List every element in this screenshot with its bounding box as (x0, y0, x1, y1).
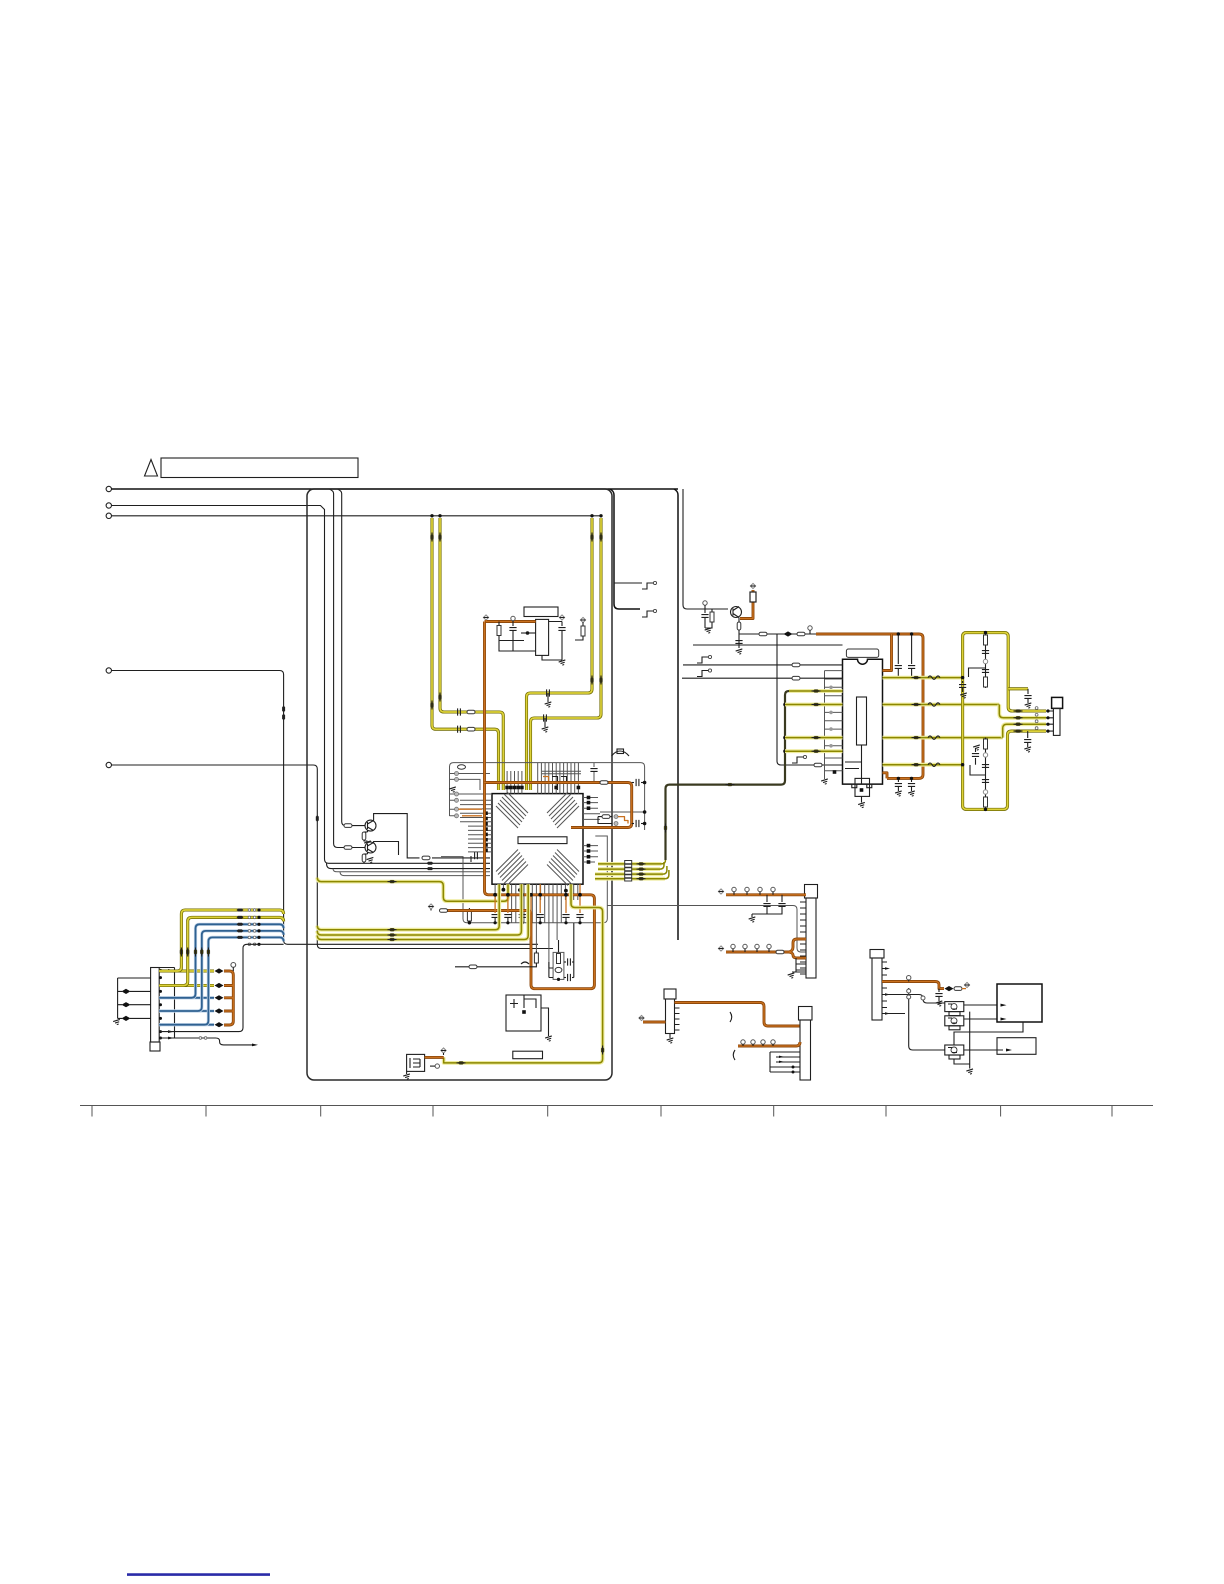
terminal P10 (231, 963, 236, 968)
capacitor C32 (911, 778, 913, 782)
ground small (449, 787, 457, 793)
diodes to comb (215, 968, 224, 973)
terminal P13 (639, 1015, 644, 1020)
arc mark (521, 962, 529, 964)
bus line 876 (340, 872, 490, 876)
jumper JP1 (612, 751, 630, 756)
wire E blue2 (159, 1009, 214, 1012)
gray return wire (159, 944, 283, 1031)
yellow stub U2b (785, 736, 843, 740)
regulator IC4 box (506, 995, 541, 1031)
driver T3 (945, 1045, 964, 1055)
wire E blue3 (159, 1023, 214, 1026)
stub arrows (812, 690, 821, 693)
emitter wire (738, 618, 740, 623)
capacitor C62 (781, 895, 783, 902)
diode D2 (439, 533, 442, 542)
terminals on rail2 (731, 944, 771, 952)
orange jog (618, 817, 628, 824)
yellow stub U2a (785, 703, 843, 707)
wire into pin1 (693, 644, 843, 646)
terminal P1 (483, 615, 488, 620)
olive wire from net5 (317, 878, 508, 902)
wires to box E1 (964, 1005, 997, 1019)
inner row (159, 968, 174, 1039)
yellow top stub (1008, 687, 1028, 690)
resistor R23 (344, 846, 352, 850)
wire to box E2 (964, 1049, 1003, 1051)
diode D6 (600, 533, 603, 542)
capacitor C12 (467, 727, 475, 731)
capacitor C61 (766, 895, 768, 902)
black tap top (969, 668, 986, 677)
diode arrows F (1014, 710, 1023, 713)
terminal P2 (511, 616, 515, 620)
bundle yellow a (317, 884, 499, 930)
shield frame U1 bottom (450, 836, 608, 923)
wire drop A (330, 489, 366, 848)
capacitor C22 (558, 628, 565, 631)
yellow bundle U1 right line1 (598, 862, 662, 866)
orange stub FET (425, 1056, 444, 1059)
orange stub C (643, 1021, 666, 1024)
ground G12 (403, 1074, 411, 1080)
wire box2 right (674, 489, 678, 940)
inductor L4 (792, 676, 800, 680)
connector CN-E body (151, 968, 160, 1043)
riser yellow2 (159, 917, 283, 985)
gray bottom wire (159, 1038, 252, 1045)
diode arrows (912, 676, 921, 679)
terminal P12 (718, 946, 723, 951)
inductor L5 (928, 676, 940, 679)
paren mark2 (733, 1050, 735, 1060)
yellow stub U2c (785, 749, 843, 753)
scale ruler (80, 1106, 1153, 1117)
wire U2 out1 yellow (883, 676, 963, 680)
capacitor C55 (564, 961, 566, 963)
circles stack (907, 989, 911, 993)
black hook top (552, 777, 567, 791)
shield frame U1 top (450, 763, 645, 830)
capacitor C24 (735, 641, 742, 644)
note box (161, 458, 358, 478)
pin stub dots (1046, 711, 1053, 731)
ground G9 (858, 802, 866, 808)
wire U2 out2 yellow (883, 703, 1000, 707)
sub wiring (499, 622, 562, 661)
bundle yellow b (317, 884, 521, 935)
terminals on railB (741, 1040, 775, 1046)
inductor L6 (928, 703, 940, 706)
diode D5 (591, 533, 594, 542)
right pad col (587, 796, 591, 800)
orange feed B (675, 1003, 801, 1027)
comb below B (770, 1052, 800, 1072)
main shield box (307, 489, 612, 1080)
top pad row (505, 786, 509, 790)
resistor R26 (535, 951, 537, 953)
arrow vertical riser (664, 824, 667, 833)
wire E yellow1 (159, 969, 214, 972)
resistor R11 (498, 622, 500, 626)
wire U2 in2 (682, 677, 843, 679)
wire U2 in1 (683, 664, 843, 666)
inductor L1 (759, 632, 767, 636)
regulator IC3 body (536, 619, 549, 655)
transistor Q3 (731, 607, 742, 618)
ground G6 (705, 628, 713, 634)
yellow stub U2 top (789, 689, 843, 693)
black tap bottom (970, 765, 986, 775)
cap near lineD (975, 758, 977, 765)
footer underline (127, 1573, 270, 1576)
capacitor C41 (1027, 689, 1029, 694)
decoupling caps row (492, 915, 584, 925)
wire edge y812 (600, 811, 645, 813)
capacitor C17 (544, 714, 547, 721)
terminal P8 (435, 1064, 439, 1068)
arrow olive (601, 1046, 604, 1055)
EMI filter loop yellow top (963, 633, 1046, 711)
connector CN-E shell (150, 1042, 160, 1051)
arrows inner (168, 969, 174, 1039)
wire U2 out4 yellow (883, 763, 963, 767)
capacitor C11 (458, 726, 461, 733)
wire drop B (338, 489, 366, 826)
connector CN-A body (806, 898, 816, 978)
ground G8 (821, 779, 829, 785)
riser yellow1 (159, 910, 283, 971)
inductor L11 (776, 950, 784, 954)
diode arrow horiz (726, 783, 735, 786)
terminal T4 (106, 668, 111, 673)
CN-C pins (675, 1003, 680, 1031)
orange elbow U2 top right (883, 634, 892, 671)
inductor L2 (814, 763, 822, 767)
wire Q2 collector net (374, 842, 399, 856)
wire Y1 yellow (432, 518, 499, 790)
bundle beads (388, 928, 397, 931)
terminal P6 (808, 626, 812, 630)
ground G16 (788, 973, 796, 979)
pin ladder circles (458, 765, 466, 769)
orange hook top (543, 777, 549, 783)
collector wire orange (740, 590, 753, 619)
wire exit right (607, 906, 806, 953)
IC U2 core (857, 697, 867, 745)
cap near lineA (962, 681, 964, 683)
arrow pair on net4 (282, 706, 285, 713)
bead b1 (427, 862, 434, 865)
yellow bundle U1 right line4 (595, 877, 665, 881)
top pins (507, 763, 578, 794)
orange stub pinL1 (459, 808, 483, 810)
terminal T2 (106, 503, 111, 508)
oo pair low (199, 1037, 207, 1040)
capacitor C21 (512, 621, 514, 627)
terminal T5 (106, 762, 111, 767)
wire Y2 yellow (440, 518, 503, 790)
terminal T1 (106, 486, 111, 491)
ground G14 (113, 1019, 121, 1025)
junction dot (526, 631, 530, 635)
capacitor C14 (467, 710, 475, 714)
CN-A pins (800, 902, 806, 974)
corner fan BR (547, 850, 579, 886)
wire link2-3 (999, 705, 1046, 738)
wire net4 (112, 671, 539, 945)
FET Q4 box (407, 1054, 425, 1071)
connector CN-B body (800, 1020, 811, 1080)
pin ladder left (825, 671, 843, 779)
capacitor C34 (911, 634, 913, 664)
diodes D10 (945, 986, 954, 991)
warning triangle (145, 460, 158, 477)
wire D sig1 (882, 995, 945, 1004)
left pad col (484, 811, 488, 815)
bus line 872 (333, 869, 490, 872)
step glyph3 (697, 669, 712, 677)
wire net3 (112, 515, 602, 517)
olive wire U1 to FET (444, 884, 603, 1063)
wire VCC in (486, 620, 536, 622)
capacitor C51 (593, 763, 595, 767)
step glyph2 (697, 655, 712, 663)
riser blue3 (159, 937, 283, 1024)
orange sub verticals (495, 884, 580, 913)
bundle yellow c (317, 884, 528, 939)
inductor L1b (797, 632, 805, 636)
wire riser dark (666, 691, 843, 860)
terminal P4 (703, 601, 707, 605)
inline oo pairs (248, 909, 256, 912)
diode D8 (600, 676, 603, 685)
link T1-T3 (954, 1012, 1023, 1069)
diode arrows bundle (637, 863, 646, 866)
orange elbow U2 bottom (883, 773, 888, 779)
inductor L7 (928, 736, 940, 739)
wire U2 out3 yellow (883, 736, 1003, 740)
orange rail A2 (726, 939, 806, 958)
resistor R21 (344, 824, 352, 828)
fuse F1 (600, 781, 608, 785)
oscillator X1 box (553, 952, 564, 979)
box E2 (997, 1038, 1036, 1055)
transistor Q1 (365, 820, 376, 831)
top bus lines (542, 771, 581, 774)
capacitor C18 ground (544, 718, 546, 727)
step glyph (792, 755, 807, 763)
diode arrow (388, 880, 397, 883)
ground G15 (751, 914, 753, 917)
inductor L9 (422, 856, 430, 860)
terminal P9 (441, 1048, 446, 1053)
capacitor C56 (564, 977, 566, 979)
pins CN-E (159, 969, 162, 1040)
wire net5 (112, 765, 554, 949)
orange rail U1 top (447, 622, 595, 989)
connector CN-D shell (870, 950, 884, 959)
diode D4 (439, 693, 442, 702)
connector CN-C shell (664, 989, 676, 999)
transistor Q2 (365, 842, 376, 853)
resistor R14 (750, 592, 756, 602)
riser arrows (180, 948, 183, 957)
capacitor C63 (938, 989, 940, 992)
orange comb (224, 971, 233, 1025)
IC U2 label box (846, 649, 878, 657)
driver T2 (945, 1016, 964, 1026)
left loop wires (118, 978, 151, 1018)
paren mark1 (730, 1012, 732, 1022)
capacitor C31 (897, 778, 899, 782)
bead arrows h (237, 909, 244, 912)
CN-D pins (882, 962, 887, 1014)
yellow bundle U1 right line2 (598, 867, 660, 871)
capacitor C52 (470, 856, 472, 862)
EMI filter loop yellow bottom (963, 678, 1046, 810)
ground G17 (669, 1034, 671, 1039)
ground G10 (364, 841, 372, 847)
wire E blue1 (159, 996, 214, 999)
wire net1 top (112, 488, 679, 490)
pin gray dots (829, 686, 833, 748)
bottom pins (495, 884, 578, 968)
ground G11 (367, 857, 375, 863)
riser blue2 (159, 931, 283, 1011)
box E1 (997, 984, 1042, 1022)
orange bus y782 (485, 783, 632, 828)
ground G7 (736, 649, 744, 655)
emitter Q1 resistor R22 (367, 831, 369, 833)
wire sense to U2 (777, 634, 842, 765)
switch S2 (642, 609, 657, 617)
junction dots (783, 703, 787, 753)
ground G13 (545, 1036, 553, 1042)
terminals on rail (732, 887, 775, 895)
wire E yellow2 (159, 984, 214, 987)
yellow bundle U1 right line3 (595, 872, 663, 876)
orange rail B2 (738, 1042, 800, 1046)
ground G18 (966, 1069, 974, 1075)
resistor R15 (737, 622, 741, 630)
wire orange bus VCC2 (816, 634, 923, 778)
bottom pad dots (502, 888, 568, 893)
IC U2 body (843, 659, 883, 784)
connector CN-B shell (799, 1007, 813, 1021)
diode arrow olive2 (457, 1062, 466, 1065)
comb below A (792, 958, 806, 972)
orange stub pinL2 (462, 815, 482, 817)
ferrite block FB1 (625, 861, 632, 882)
terminal T3 (106, 513, 111, 518)
left pins (460, 800, 492, 852)
wire Y3 yellow (527, 518, 593, 790)
junction dots orange bus (493, 893, 582, 897)
crystal X2 (855, 778, 870, 796)
resistor R25 (468, 908, 470, 912)
diode D9 (784, 631, 793, 636)
resistor R12 (580, 617, 585, 622)
diode D7 (591, 676, 594, 685)
connector CN-F (1052, 697, 1063, 708)
capacitor C23 (704, 605, 706, 613)
diode D1 (431, 533, 434, 542)
capacitor C15 (547, 689, 550, 696)
filter chain mid top (985, 633, 987, 688)
capacitor C54 (632, 823, 634, 825)
emitter Q2 resistor R24 (367, 853, 369, 855)
inductor L8 (928, 763, 940, 766)
resistor R13 (711, 609, 713, 612)
terminal P14 (962, 988, 966, 990)
terminal circle (907, 976, 911, 980)
orange terminal P7 (428, 904, 433, 909)
wire base Q3 (683, 489, 728, 609)
junction dots bundle (257, 908, 260, 946)
terminal P11 (718, 889, 723, 894)
orange rail A1 (726, 893, 806, 896)
wire net2 (112, 506, 491, 864)
wire D sig2 (882, 988, 945, 1050)
capacitor C53 (632, 782, 634, 784)
wire diode row (739, 633, 816, 635)
wire Y4 yellow (531, 518, 602, 790)
pad P (833, 770, 837, 774)
switch S1 wire (614, 582, 642, 584)
terminal P3 (559, 615, 564, 620)
switch S1 (642, 581, 657, 589)
inductor L10 (469, 965, 477, 969)
inductor L3 (792, 663, 800, 667)
filter chain mid bottom (985, 738, 987, 810)
capacitor C16 ground (547, 693, 549, 702)
shield box 2 (610, 489, 640, 609)
connector CN-A shell (805, 885, 818, 899)
label box FET (513, 1051, 543, 1059)
connector CN-D body (872, 958, 882, 1020)
orange rail D (882, 982, 944, 989)
right pins (583, 798, 600, 863)
arrow on net5 (316, 815, 319, 822)
corner fan TL (496, 792, 528, 828)
terminal P5 (750, 583, 755, 588)
junction dots loop (961, 631, 987, 811)
connector CN-C body (666, 999, 675, 1034)
corner fan TR (547, 792, 579, 828)
capacitor C13 (458, 708, 461, 715)
diode D3 (431, 701, 434, 710)
IC U1 label box (518, 837, 567, 844)
IC U1 QFP body (492, 794, 583, 885)
riser blue1 (159, 924, 283, 998)
capacitor C42 (1027, 731, 1029, 738)
regulator IC3 label box (524, 607, 558, 617)
corner fan BL (496, 850, 528, 886)
RC pair (598, 817, 612, 824)
fuse F2 (440, 909, 448, 913)
ground G5 (559, 660, 567, 666)
bus line 868 (327, 863, 491, 868)
inline parts (122, 989, 131, 994)
capacitor C33 (897, 634, 899, 664)
wire Q1 collector net (374, 814, 420, 858)
driver T1 (945, 1002, 964, 1012)
